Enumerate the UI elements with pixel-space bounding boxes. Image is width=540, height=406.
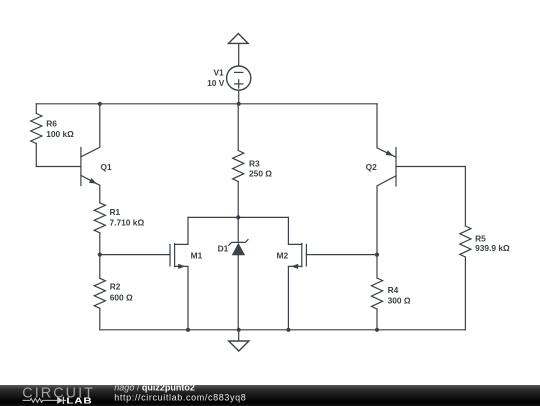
svg-text:300 Ω: 300 Ω xyxy=(388,296,411,306)
svg-text:600 Ω: 600 Ω xyxy=(110,293,133,303)
svg-text:100 kΩ: 100 kΩ xyxy=(46,129,74,139)
svg-text:D1: D1 xyxy=(218,243,229,253)
svg-text:V1: V1 xyxy=(213,68,224,78)
svg-text:M2: M2 xyxy=(277,250,289,260)
svg-text:10 V: 10 V xyxy=(207,78,225,88)
svg-text:939.9 kΩ: 939.9 kΩ xyxy=(475,243,510,253)
svg-text:http://circuitlab.com/c883yq8: http://circuitlab.com/c883yq8 xyxy=(114,392,246,402)
svg-text:250 Ω: 250 Ω xyxy=(249,169,272,179)
svg-text:R3: R3 xyxy=(249,159,260,169)
svg-text:M1: M1 xyxy=(191,251,203,261)
svg-text:R6: R6 xyxy=(46,119,57,129)
svg-text:Q1: Q1 xyxy=(101,162,113,172)
svg-text:R5: R5 xyxy=(475,233,486,243)
svg-text:Q2: Q2 xyxy=(366,162,378,172)
svg-text:R4: R4 xyxy=(388,285,399,295)
svg-text:7.710 kΩ: 7.710 kΩ xyxy=(110,218,145,228)
svg-text:R2: R2 xyxy=(110,282,121,292)
svg-text:R1: R1 xyxy=(110,207,121,217)
